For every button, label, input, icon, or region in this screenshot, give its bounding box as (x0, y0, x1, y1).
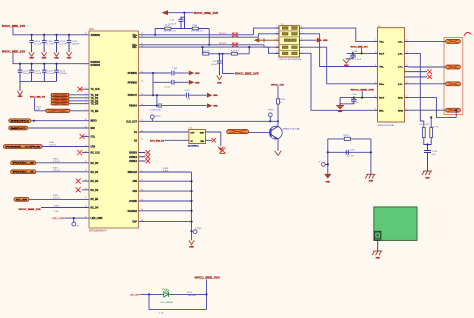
junction AVDD cap 1 (31, 34, 33, 36)
svg-text:26: 26 (141, 139, 143, 141)
svg-text:16: 16 (406, 40, 408, 42)
svg-text:GND: GND (189, 247, 194, 249)
wire RX_DV (41, 207, 89, 209)
ground emitter (275, 151, 282, 156)
svg-text:TP22: TP22 (155, 116, 161, 118)
chassis ground RC right (366, 173, 375, 175)
svg-text:MDC: MDC (11, 128, 28, 130)
wire RBIAS cap to gnd (162, 105, 207, 107)
svg-text:GND: GND (18, 96, 23, 98)
wire TD+ from IC (139, 34, 254, 36)
ground RCT2 (solid bar) (336, 105, 344, 107)
transformer T1 pin stubs row 5 (276, 52, 280, 54)
svg-text:GND: GND (369, 181, 374, 183)
wire cap to ground (RCT1) (346, 57, 353, 60)
wire label to rail (184, 13, 186, 18)
resistor R115 2.2k (TX_EN pullup) (34, 98, 36, 111)
RJ45 J2 left pin TD- (374, 66, 378, 68)
ground below C114 (29, 52, 34, 56)
ground DVDD bank (17, 91, 22, 95)
svg-text:1nF: 1nF (432, 154, 436, 156)
wire R124 to collector (277, 104, 279, 126)
wire PFBIN vertical 2 (156, 95, 158, 105)
svg-text:RBIAS: RBIAS (129, 105, 137, 108)
svg-text:14: 14 (406, 65, 408, 67)
port MDC (9, 126, 28, 130)
wire osc INB stub (205, 139, 212, 141)
capacitor C114 0.1uF (31, 35, 33, 41)
annotation mark top right (464, 32, 471, 35)
svg-text:DVDD33: DVDD33 (91, 64, 101, 67)
no-connect IC right pin 2 (139, 156, 146, 158)
port RMII_MODE (CRS) (3, 145, 42, 149)
svg-text:TP30: TP30 (195, 228, 202, 230)
svg-text:RX_D1: RX_D1 (91, 171, 99, 174)
wire LED row (140, 293, 207, 295)
svg-text:GND: GND (29, 58, 34, 60)
svg-text:R116 49.9: R116 49.9 (420, 124, 430, 126)
svg-text:1: 1 (277, 26, 278, 28)
junction DVDD cap 1 (19, 63, 21, 65)
svg-text:12: 12 (406, 96, 408, 98)
svg-text:C112: C112 (165, 86, 171, 88)
resistor pack element RP1-D (TX_D3) (51, 102, 69, 105)
junction DVDD cap 4 (55, 63, 57, 65)
svg-text:TX_CLK: TX_CLK (91, 88, 101, 91)
no-connect IC right pin 1 (139, 152, 146, 154)
svg-text:6: 6 (375, 109, 376, 111)
svg-text:4: 4 (277, 45, 278, 47)
wire DVDD rail (13, 53, 89, 64)
svg-text:RVCC_BBE_1V5: RVCC_BBE_1V5 (150, 140, 165, 142)
svg-text:RD-: RD- (132, 46, 137, 49)
wire MDC (28, 127, 89, 129)
wire RC right vertical (370, 139, 372, 174)
svg-text:VD2: VD2 (162, 289, 167, 291)
wire RJ45 SH2 to port 4 (409, 109, 446, 111)
svg-text:2.2k: 2.2k (54, 211, 58, 213)
wire rail to TD+ (154, 29, 156, 35)
svg-text:RVCC_BBE_1V5: RVCC_BBE_1V5 (2, 25, 26, 28)
svg-text:GND: GND (217, 82, 222, 84)
svg-text:R120: R120 (344, 135, 349, 137)
IC U10 DP83848 body (89, 31, 139, 228)
junction RCT2 (361, 97, 363, 99)
wire IC X1 to oscillator (139, 131, 189, 133)
svg-text:R102: R102 (219, 43, 226, 45)
PCB outline block (green) (374, 207, 417, 241)
wire cap to chassis (427, 158, 429, 171)
ferrite bead / center tap arrow into T1 pin 3 (258, 39, 279, 41)
capacitor C125 0.1uF (RCT1) (352, 52, 354, 54)
junction LED supply (205, 293, 207, 295)
capacitor C115 0.1uF (43, 35, 45, 41)
wire TX_D1 to IC (69, 97, 89, 99)
svg-text:11: 11 (406, 109, 408, 111)
wire RX_D0 (36, 162, 89, 164)
svg-text:2: 2 (277, 32, 278, 34)
wire A0N to bus (139, 180, 192, 182)
svg-text:TG110-S050N2RL: TG110-S050N2RL (278, 59, 302, 61)
svg-text:4.7 uF: 4.7 uF (347, 156, 355, 158)
wire PFBIN2 cap to gnd (175, 81, 189, 83)
capacitor C113 on PFBOUT (185, 93, 187, 98)
junction SH rail on port4 wire (455, 109, 457, 111)
wire osc supply (165, 139, 189, 141)
svg-text:RX_D2: RX_D2 (91, 180, 99, 183)
wire LED return vertical (148, 294, 150, 309)
junction rail RD+ (208, 44, 210, 46)
wire PCB block to chassis (377, 240, 379, 251)
svg-text:RXBE1: RXBE1 (129, 156, 137, 159)
wire PFBIN2 row (153, 81, 171, 83)
svg-text:CRS: CRS (91, 146, 96, 149)
svg-text:GND: GND (54, 58, 59, 60)
wire cap to ground (218, 67, 220, 76)
ground RBIAS row (right arrow) (207, 103, 213, 108)
resistor pack element RP1-A (TX_D0) (51, 94, 69, 97)
RJ45 J2 left pin RCT (374, 52, 378, 54)
RJ45 J2 right pin SH2 (405, 109, 409, 111)
svg-text:5: 5 (277, 51, 278, 53)
svg-text:RVCC_BBE_1V5: RVCC_BBE_1V5 (235, 72, 259, 75)
svg-text:330 ohm: 330 ohm (188, 295, 197, 297)
svg-text:LY-: LY- (398, 84, 403, 86)
wire RJ45 LY+ to port 2 (409, 66, 446, 68)
svg-text:2.2k 1%: 2.2k 1% (53, 198, 60, 200)
wire RCT2 gnd leg (339, 98, 341, 106)
svg-text:10: 10 (301, 26, 303, 28)
chassis ground PCB block (373, 250, 382, 252)
svg-text:IOGND2: IOGND2 (128, 210, 138, 213)
no-connect osc INB (212, 138, 216, 142)
capacitor C2-20 10uF (19, 64, 21, 70)
svg-text:C16: C16 (170, 19, 174, 21)
wire PFBOUT cap to gnd (189, 94, 206, 96)
capacitor C146 2.2uF (RCT2) (353, 97, 355, 99)
junction RCT1 (361, 52, 363, 54)
capacitor C16 0.01uF (181, 17, 185, 19)
junction MDIO (33, 120, 35, 122)
ground below C117 (66, 52, 71, 56)
svg-text:2.2k 1%: 2.2k 1% (49, 145, 56, 147)
svg-text:GND: GND (213, 95, 218, 97)
resistor R120 (RC network) (344, 137, 350, 140)
wire DAP to bus (139, 221, 192, 223)
svg-text:C127: C127 (350, 150, 355, 152)
svg-text:RVCC_BBE_1V5: RVCC_BBE_1V5 (19, 209, 42, 211)
capacitor C111 on PFBIN1 (171, 71, 173, 76)
transformer T1 winding row 2 (282, 33, 288, 36)
wire label to RCT2 (361, 91, 363, 98)
svg-text:RVCC_BBE_1V5: RVCC_BBE_1V5 (351, 47, 369, 49)
resistor pack element RP1-B (TX_D1) (51, 97, 69, 100)
capacitor C116 0.1uF (56, 35, 58, 41)
testpoint TP23 on LED_LINK (73, 218, 75, 222)
no-connect RX_D2 pin (82, 180, 89, 182)
svg-text:MDC: MDC (91, 127, 96, 130)
RJ45 J2 left pin RCT (374, 97, 378, 99)
svg-text:13: 13 (406, 82, 408, 84)
wire RJ45 LG- down to R116 (409, 53, 424, 127)
wire RC left vertical (327, 139, 329, 174)
svg-text:GND: GND (42, 58, 47, 60)
svg-text:5: 5 (375, 96, 376, 98)
testpoint TP22 on CLK_OUT (151, 119, 153, 122)
svg-text:4: 4 (375, 82, 376, 84)
junction PFBOUT cap (156, 94, 158, 96)
svg-text:INB: INB (200, 141, 204, 143)
svg-text:RX_D3: RX_D3 (91, 189, 99, 192)
svg-text:A1N: A1N (132, 190, 137, 193)
svg-text:GND: GND (195, 82, 200, 84)
svg-text:25.000MHz: 25.000MHz (188, 145, 199, 147)
wire bottom bus vertical (191, 172, 193, 240)
wire LED_LINK (65, 217, 90, 219)
svg-text:DAP: DAP (132, 221, 137, 224)
junction top label (183, 12, 185, 14)
wire TX_EN to IC (70, 110, 89, 112)
chassis ground (shield) (423, 170, 432, 172)
RJ45 J2 right pin LY+ (405, 66, 409, 68)
junction rail cap (218, 53, 220, 55)
ground RCT1 (343, 60, 350, 64)
transistor Q1 MMBT2222A (269, 126, 282, 139)
svg-text:2.2k 1%: 2.2k 1% (53, 170, 60, 172)
svg-text:R101: R101 (219, 33, 226, 35)
wire T1 pin8 center tap to GND (304, 39, 317, 41)
RJ45 J2 left pin RD- (374, 109, 378, 111)
RJ45 connector J2 body (378, 28, 405, 122)
no-connect COL pin (82, 136, 89, 138)
wire RJ45 LY- to port 3 (409, 83, 446, 85)
wire RD- from IC (139, 46, 269, 48)
mounting pad component on PCB block (375, 231, 381, 240)
svg-text:MDIO: MDIO (91, 120, 97, 123)
ground PFBIN2 (right arrow) (189, 80, 195, 85)
wire rail to 1V5 label (223, 54, 235, 74)
svg-text:CLK_OUT: CLK_OUT (126, 120, 137, 123)
svg-text:RX_CLK: RX_CLK (91, 152, 101, 155)
ground osc out (marked DNI) (218, 147, 223, 150)
svg-text:RCT: RCT (379, 98, 385, 100)
transformer T1 internal separators (280, 30, 299, 32)
svg-text:TD+: TD+ (379, 41, 385, 43)
no-connect IC right pin 3 (139, 160, 146, 162)
svg-text:0.01uF: 0.01uF (169, 24, 178, 26)
svg-text:RXBE2: RXBE2 (129, 160, 137, 163)
svg-text:1k: 1k (280, 102, 282, 104)
svg-text:LED_LINK: LED_LINK (52, 218, 65, 220)
wire T1 pin6 to RJ45 RD- (304, 53, 374, 110)
svg-text:RD-: RD- (379, 110, 384, 112)
transformer T1 winding row 1 (282, 27, 288, 30)
RJ45 J2 right pin LG- (405, 52, 409, 54)
wire PFBIN1 row (139, 72, 172, 74)
svg-text:2200pF: 2200pF (72, 43, 81, 45)
wire RCT1 row (347, 52, 374, 54)
resistor pack element RP1-C (TX_D2) (51, 100, 69, 103)
junction AVDD cap 3 (55, 34, 57, 36)
svg-text:2.2k 1%: 2.2k 1% (53, 161, 60, 163)
wire PFBIN vertical (152, 73, 154, 95)
svg-text:LED_LINK: LED_LINK (130, 295, 139, 297)
wire T1 pin9 to RJ45 TD- (304, 34, 374, 67)
svg-text:C145: C145 (352, 51, 357, 53)
svg-text:RMII_CRS: RMII_CRS (5, 146, 42, 148)
svg-text:TX_D3: TX_D3 (91, 103, 99, 106)
svg-text:2200pF: 2200pF (59, 73, 68, 75)
wire MDIO (31, 120, 89, 122)
wire TX termination rail (155, 28, 209, 30)
transformer T1 pin stubs row 3 (276, 39, 280, 41)
wire RJ45 LG+ to port 1 (409, 40, 446, 42)
wire top label (168, 12, 194, 14)
svg-text:RD+: RD+ (379, 84, 385, 86)
svg-text:TD-: TD- (379, 67, 384, 69)
svg-text:U10: U10 (89, 29, 95, 31)
svg-text:RXD_1: RXD_1 (13, 172, 37, 174)
RJ45 J2 right pin LG+ (405, 40, 409, 42)
wire IOGND to bus (139, 200, 192, 202)
svg-text:TX_EN: TX_EN (91, 110, 99, 113)
svg-text:1.2k: 1.2k (159, 313, 164, 315)
wire label to RCT1 (361, 48, 363, 53)
capacitor C112 on PFBIN2 (171, 80, 173, 85)
wire T1 pin7 to RJ45 RD+ (304, 47, 374, 84)
svg-text:LED_LINK: LED_LINK (91, 217, 103, 220)
svg-text:R109: R109 (54, 205, 59, 207)
wire RCT2 row (340, 97, 374, 99)
svg-text:RXD_0: RXD_0 (13, 163, 37, 165)
port RX_ER (14, 198, 29, 202)
transformer T1 winding row 3 (284, 39, 290, 42)
svg-text:RX_ER: RX_ER (16, 199, 28, 201)
svg-text:LED GREEN: LED GREEN (160, 302, 173, 304)
svg-text:0.01uF: 0.01uF (211, 64, 218, 66)
ground RC left (solid) (325, 173, 332, 175)
svg-text:MMBT2222A: MMBT2222A (283, 127, 301, 130)
junction rail TD+ (154, 34, 156, 36)
port RXD0 (11, 161, 36, 165)
transformer T1 winding row 5 (282, 52, 288, 55)
wire RBIAS row (139, 105, 157, 107)
svg-text:PFBIN1: PFBIN1 (128, 72, 138, 75)
ground RX rail cap (217, 75, 222, 79)
capacitor C123 2200pF (56, 64, 58, 70)
svg-text:RVCC_BBE_1V5: RVCC_BBE_1V5 (30, 96, 46, 98)
wire RX termination rail (203, 53, 250, 55)
svg-text:DP83848IVV: DP83848IVV (89, 231, 107, 233)
svg-text:GND: GND (338, 111, 343, 113)
junction CLK_OUT TP25 (269, 120, 271, 122)
junction DVDD cap 2 (31, 63, 33, 65)
power arrow GND (left of top label) (162, 10, 169, 15)
svg-text:MDIO: MDIO (11, 121, 31, 123)
svg-text:2: 2 (375, 52, 376, 54)
transformer T1 pin stubs row 1 (276, 27, 280, 29)
testpoint TP25 (269, 117, 271, 122)
svg-text:RX_D0: RX_D0 (91, 162, 99, 165)
svg-text:GND: GND (200, 133, 204, 135)
wire TX_D3 to IC (69, 103, 89, 105)
wire PFBOUT row (139, 94, 186, 96)
svg-text:GND: GND (323, 40, 328, 42)
wire R116/R117 join (424, 138, 431, 145)
junction AVDD cap 2 (43, 34, 45, 36)
wire RX_D1 (36, 171, 89, 173)
svg-text:R121: R121 (187, 292, 192, 294)
svg-text:C113: C113 (185, 90, 190, 92)
svg-text:C111: C111 (172, 68, 178, 70)
wire PFBIN1 cap to gnd (175, 72, 189, 74)
capacitor C118 on RBIAS row (158, 103, 160, 108)
svg-text:RX_ER: RX_ER (91, 198, 99, 201)
port MDIO (9, 119, 31, 123)
capacitor C127 4.7uF (RC network) (345, 150, 347, 155)
junction AVDD cap 4 (68, 34, 70, 36)
wire IOGND2 to bus (139, 210, 192, 212)
port pad 3 (446, 82, 461, 86)
svg-text:49.9 ohm 1%: 49.9 ohm 1% (191, 31, 204, 33)
wire RD+ from IC (139, 44, 265, 46)
oscillator X1 body (189, 129, 206, 143)
wire DVDD cap bottom rail (20, 80, 57, 82)
no-connect TX_CLK pin (81, 88, 89, 90)
wire T1 pin10 to RJ45 TD+ (304, 28, 374, 41)
ground below C115 (42, 52, 47, 56)
svg-text:RVCC_BBE_1V5: RVCC_BBE_1V5 (2, 50, 26, 53)
wire RC network top (328, 138, 371, 140)
capacitor C121 0.1uF (31, 64, 33, 70)
wire TX_D0 to IC (69, 94, 89, 96)
junction R join (426, 143, 428, 145)
transformer T1 pin stubs row 4 (276, 46, 280, 48)
junction LED_LINK (73, 217, 75, 219)
svg-text:PFBIN2: PFBIN2 (128, 81, 138, 84)
wire RJ45 SH1 down to bottom rail (409, 98, 457, 118)
svg-text:GND: GND (67, 58, 72, 60)
junction CLK_OUT collector (277, 120, 279, 122)
svg-text:RX_DV: RX_DV (91, 207, 99, 210)
svg-text:LG-: LG- (398, 53, 403, 55)
wire osc out (205, 132, 220, 146)
ground PFBIN1 (right arrow) (189, 71, 195, 76)
junction LED row (148, 293, 150, 295)
svg-text:LG+: LG+ (398, 41, 404, 43)
svg-text:0.1 uF: 0.1 uF (355, 59, 363, 61)
port RXD1 (11, 170, 36, 174)
capacitor C124 1nF (427, 145, 429, 151)
wire LED supply vertical (206, 279, 208, 309)
svg-text:GND: GND (326, 182, 331, 184)
svg-text:HR911105A: HR911105A (378, 124, 395, 127)
svg-text:PFBOUT: PFBOUT (128, 94, 138, 97)
wire rail to RD+ (208, 29, 210, 45)
svg-text:28: 28 (141, 81, 143, 83)
wire emitter to ground (277, 139, 279, 151)
wire TD- to transformer pin 2 (259, 34, 280, 37)
svg-text:3: 3 (375, 65, 376, 67)
connector outline box (red) (444, 38, 463, 115)
svg-text:6: 6 (301, 51, 302, 53)
svg-text:GND: GND (344, 65, 349, 67)
wire RC network mid (328, 151, 371, 153)
wire label to R124 (277, 86, 279, 99)
wire TD- from IC (139, 36, 259, 38)
RJ45 J2 no-connect pin NC2 (405, 76, 428, 78)
wire DVDD gnd leg (19, 81, 21, 91)
